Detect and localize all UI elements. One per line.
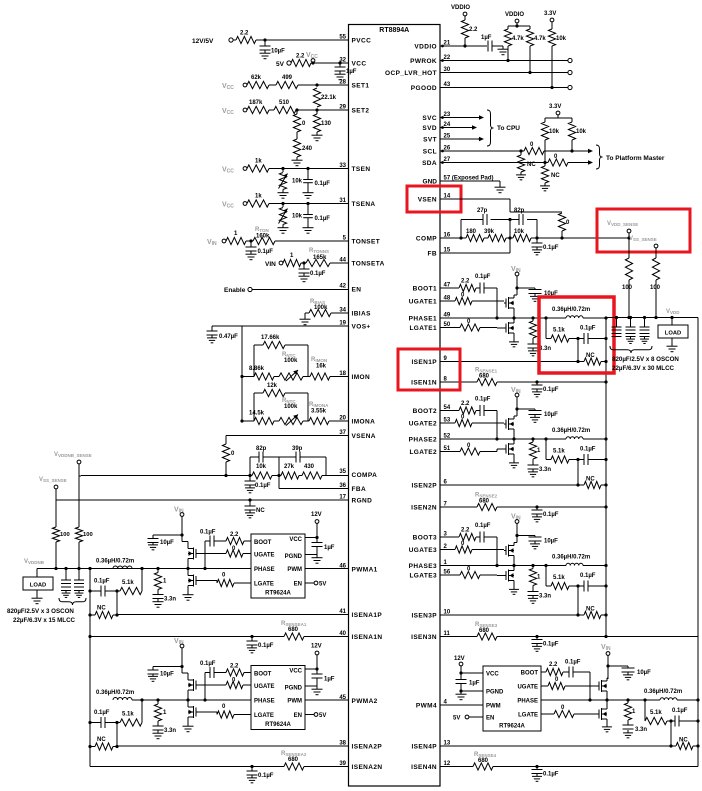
svg-text:VVDD_SENSE: VVDD_SENSE bbox=[607, 221, 638, 227]
ground (snubber 2) bbox=[528, 469, 538, 477]
svg-text:510: 510 bbox=[279, 100, 290, 106]
ground (bulk3 VDD) bbox=[640, 337, 649, 344]
svg-text:10k: 10k bbox=[256, 464, 267, 470]
pin 24 SVD bbox=[422, 122, 450, 132]
ground (snubber A1) bbox=[153, 599, 164, 608]
svg-text:PGOOD: PGOOD bbox=[411, 85, 437, 92]
wire VIN (A1) bbox=[180, 517, 183, 542]
resistor RSENSEA2 680 bbox=[281, 751, 307, 770]
wire TSENA bbox=[269, 202, 349, 205]
svg-text:RIMONA: RIMONA bbox=[309, 402, 329, 408]
svg-text:PHASE: PHASE bbox=[517, 699, 538, 705]
pin 7 ISEN2N bbox=[411, 502, 447, 512]
svg-text:PWM: PWM bbox=[486, 704, 501, 710]
svg-text:ISEN1N: ISEN1N bbox=[411, 380, 437, 387]
svg-text:39p: 39p bbox=[292, 446, 303, 452]
svg-text:22.1k: 22.1k bbox=[321, 95, 337, 101]
capacitor 0.1uF boot (3) bbox=[475, 523, 497, 543]
svg-text:1µF: 1µF bbox=[324, 677, 335, 683]
svg-text:VVDDNB_SENSE: VVDDNB_SENSE bbox=[54, 452, 92, 458]
svg-text:EN: EN bbox=[294, 713, 302, 719]
ground (ISEN4N cap) bbox=[532, 774, 542, 782]
resistor 8.86k bbox=[249, 366, 274, 380]
svg-text:0.1µF: 0.1µF bbox=[315, 216, 331, 222]
svg-text:0.1µF: 0.1µF bbox=[565, 660, 581, 666]
wire boot node (3) bbox=[495, 537, 498, 567]
wire branch left (3) bbox=[545, 566, 547, 587]
resistor 2.2 boot (A1) bbox=[214, 532, 251, 545]
svg-text:0.1µF: 0.1µF bbox=[94, 710, 110, 716]
ground (10uF 3) bbox=[530, 541, 540, 549]
resistor 4.7k a bbox=[504, 26, 524, 61]
resistor 14.5k bbox=[249, 411, 274, 425]
wire PGND (A1) bbox=[305, 554, 317, 556]
svg-text:5.1k: 5.1k bbox=[650, 710, 662, 716]
ground (ISEN3N cap) bbox=[532, 644, 542, 652]
pin 29 SET2 bbox=[339, 105, 369, 115]
svg-text:LGATE1: LGATE1 bbox=[409, 325, 437, 332]
resistor 0 ugate (2) bbox=[440, 415, 504, 427]
pin 21 VDDIO bbox=[414, 41, 450, 51]
svg-text:PWROK: PWROK bbox=[410, 58, 437, 65]
op-amp RT9624A driver (A1) bbox=[251, 534, 305, 598]
transistor Q lower (A1) bbox=[188, 569, 198, 592]
ground (bulk2 VDD) bbox=[626, 337, 635, 344]
node VCC (SET2) bbox=[222, 108, 247, 116]
capacitor 1uF (drv4) bbox=[456, 680, 480, 692]
inductor 0.36uH (1) bbox=[552, 307, 608, 320]
resistor 100 (VSS sense right) bbox=[650, 248, 661, 317]
pin 40 ISENA1N bbox=[339, 631, 382, 641]
svg-text:0.1µF: 0.1µF bbox=[543, 642, 559, 648]
svg-text:5.1k: 5.1k bbox=[122, 712, 134, 718]
wire branch left (1) bbox=[545, 318, 547, 339]
svg-text:VCC: VCC bbox=[289, 669, 302, 675]
svg-text:27k: 27k bbox=[284, 464, 295, 470]
svg-text:10k: 10k bbox=[576, 129, 587, 135]
node branch junction (3) bbox=[569, 584, 584, 615]
resistor 62k bbox=[247, 75, 269, 89]
ground (lowfet 3) bbox=[509, 587, 519, 595]
svg-text:RT9624A: RT9624A bbox=[265, 591, 291, 597]
wire SVD bbox=[440, 125, 477, 129]
node TONSET junction bbox=[249, 239, 252, 242]
svg-text:12V: 12V bbox=[311, 512, 322, 518]
wire VSS_SENSE bbox=[56, 489, 57, 527]
resistor 0 ugate (A2) bbox=[198, 678, 251, 689]
brace (VDD caps) bbox=[610, 346, 652, 353]
svg-text:SET1: SET1 bbox=[352, 83, 370, 90]
capacitor 1uF driver (A2) bbox=[312, 669, 335, 686]
resistor 0 ugate (1) bbox=[440, 293, 504, 305]
svg-text:PHASE1: PHASE1 bbox=[409, 316, 437, 323]
ground (COMP cap) bbox=[532, 247, 542, 255]
svg-text:10k: 10k bbox=[556, 36, 567, 42]
resistor 240 bbox=[293, 132, 312, 157]
wire VDD rail bbox=[606, 316, 698, 319]
svg-text:1µF: 1µF bbox=[324, 545, 335, 551]
transistor Q upper (A2) bbox=[182, 673, 198, 700]
node branch junction (2) bbox=[569, 458, 584, 485]
svg-text:PWM: PWM bbox=[287, 567, 302, 573]
node IMON tap bbox=[240, 375, 243, 378]
svg-text:BOOT: BOOT bbox=[254, 672, 272, 678]
resistor 1k (TSENA) bbox=[247, 194, 269, 208]
svg-text:BOOT: BOOT bbox=[521, 671, 539, 677]
pin 6 ISEN2P bbox=[411, 480, 447, 490]
capacitor 3.3n (4) bbox=[623, 720, 648, 733]
transistor Q upper (2) bbox=[504, 416, 517, 439]
resistor 0 (VSEN) bbox=[558, 213, 570, 240]
thermistor RNTC 100k (IMON) bbox=[274, 352, 303, 381]
wire SVC bbox=[440, 115, 484, 119]
svg-text:PWMA2: PWMA2 bbox=[352, 698, 378, 705]
svg-text:RT8894A: RT8894A bbox=[379, 27, 409, 34]
capacitor 1uF driver (A1) bbox=[312, 538, 335, 555]
node junction (A2) bbox=[88, 721, 118, 746]
svg-text:10µF: 10µF bbox=[160, 672, 174, 678]
svg-text:160k: 160k bbox=[256, 234, 270, 240]
node VSS_SENSE bbox=[39, 477, 67, 489]
svg-text:100: 100 bbox=[83, 532, 93, 538]
wire VCC driver (A2) bbox=[305, 655, 319, 671]
resistor 130 bbox=[313, 110, 331, 132]
node comp mid bbox=[508, 236, 511, 239]
capacitor 27p bbox=[477, 208, 488, 225]
svg-text:0.1µF: 0.1µF bbox=[200, 530, 216, 536]
svg-text:680: 680 bbox=[288, 757, 299, 763]
wire phase vertical (A2) bbox=[140, 698, 143, 722]
node junction (A1) bbox=[88, 589, 118, 614]
pin 48 UGATE1 bbox=[409, 296, 451, 306]
resistor 1 (TONSETA) bbox=[283, 253, 301, 267]
capacitor 0.1uF boot (A1) bbox=[200, 530, 216, 569]
capacitor bulk 2 (VDDNB) bbox=[74, 569, 84, 591]
node VIN (A2) bbox=[174, 638, 184, 648]
LOAD box (VDD) bbox=[658, 318, 688, 339]
pin 22 PWROK bbox=[410, 55, 451, 65]
resistor 510 bbox=[269, 100, 296, 114]
node 5V input bbox=[276, 61, 291, 68]
svg-text:ISENA2P: ISENA2P bbox=[352, 744, 383, 751]
wire PWM (A1) bbox=[305, 568, 349, 570]
pin 35 COMPA bbox=[339, 469, 377, 479]
svg-text:2.2: 2.2 bbox=[461, 528, 470, 534]
svg-text:8.86k: 8.86k bbox=[249, 366, 265, 372]
node IMONA tap bbox=[240, 419, 243, 422]
svg-text:82p: 82p bbox=[256, 446, 267, 452]
resistor 27k bbox=[281, 464, 299, 479]
svg-text:5.1k: 5.1k bbox=[553, 449, 565, 455]
svg-text:0.1µF: 0.1µF bbox=[255, 483, 271, 489]
pin 25 SVT bbox=[423, 134, 451, 144]
capacitor 0.1uF boot (2) bbox=[475, 397, 497, 417]
transistor Q lower (A2) bbox=[188, 700, 198, 723]
pin 13 ISEN4P bbox=[411, 741, 450, 751]
svg-text:FB: FB bbox=[428, 251, 437, 258]
ground (130) bbox=[312, 132, 323, 141]
svg-text:VCC: VCC bbox=[222, 167, 234, 175]
svg-text:VVDD: VVDD bbox=[666, 309, 680, 315]
svg-text:SVD: SVD bbox=[422, 125, 437, 132]
svg-text:PHASE3: PHASE3 bbox=[409, 563, 437, 570]
wire comp top rail bbox=[461, 218, 537, 253]
capacitor 3.3n (A2) bbox=[153, 721, 177, 734]
wire VSEN sense line bbox=[537, 236, 631, 239]
resistor 2.2 boot (1) bbox=[440, 279, 480, 292]
svg-text:LGATE: LGATE bbox=[254, 713, 274, 719]
wire ISEN3P bbox=[440, 613, 580, 616]
svg-text:0.1µF: 0.1µF bbox=[580, 573, 596, 579]
pin 1 PHASE3 bbox=[409, 560, 448, 570]
node PVCC junction bbox=[263, 38, 266, 41]
svg-text:UGATE: UGATE bbox=[254, 553, 275, 559]
resistor 0 lgate (2) bbox=[440, 443, 504, 455]
wire VDD right vertical bbox=[697, 318, 699, 767]
pin 23 SVC bbox=[422, 112, 450, 122]
svg-text:NC: NC bbox=[551, 173, 560, 179]
wire VIN (1) bbox=[515, 276, 518, 295]
svg-text:UGATE: UGATE bbox=[517, 685, 538, 691]
capacitor 0.1uF (A1) bbox=[90, 579, 120, 597]
pin 37 VSENA bbox=[339, 430, 376, 440]
svg-text:820µF/2.5V x 8 OSCON: 820µF/2.5V x 8 OSCON bbox=[612, 356, 679, 363]
svg-text:3.3V: 3.3V bbox=[544, 11, 556, 17]
svg-text:SVT: SVT bbox=[423, 137, 437, 144]
resistor 187k bbox=[247, 100, 269, 114]
resistor NC (2) bbox=[578, 477, 608, 489]
svg-text:5.1k: 5.1k bbox=[553, 575, 565, 581]
ground (NC SCL) bbox=[516, 172, 526, 180]
node TONSETA junction bbox=[302, 261, 305, 264]
capacitor NC (RGND) bbox=[245, 500, 266, 514]
capacitor 39p bbox=[292, 446, 303, 463]
ground (VCC cap) bbox=[335, 71, 346, 80]
pin 38 ISENA2P bbox=[339, 741, 382, 751]
svg-text:SDA: SDA bbox=[422, 160, 437, 167]
wire ISENA2P bbox=[117, 745, 349, 747]
capacitor bulk 1 (VDD) bbox=[612, 318, 622, 337]
svg-text:5.1k: 5.1k bbox=[553, 328, 565, 334]
svg-text:0.1µF: 0.1µF bbox=[580, 447, 596, 453]
svg-text:Enable: Enable bbox=[224, 287, 246, 294]
svg-text:0.1µF: 0.1µF bbox=[200, 661, 216, 667]
resistor 1 snubber (A2) bbox=[154, 698, 167, 721]
pin 4 PWM4 bbox=[416, 700, 448, 710]
svg-text:VDDIO: VDDIO bbox=[414, 44, 437, 51]
wire VCC driver (A1) bbox=[305, 524, 319, 540]
capacitor bulk 3 (VDD) bbox=[640, 318, 650, 337]
svg-text:VCC: VCC bbox=[222, 83, 234, 91]
resistor 2.2 (PVCC) bbox=[236, 31, 256, 44]
resistor NC (SCL) bbox=[517, 151, 536, 172]
svg-text:VSEN: VSEN bbox=[418, 197, 437, 204]
resistor 180 bbox=[466, 229, 484, 242]
LOAD box (VDDNB) bbox=[23, 569, 53, 591]
pin 43 PGOOD bbox=[411, 82, 451, 92]
svg-text:PHASE: PHASE bbox=[254, 699, 275, 705]
svg-text:680: 680 bbox=[288, 627, 299, 633]
resistor 1 snubber (3) bbox=[529, 566, 541, 586]
resistor 1 snubber (2) bbox=[529, 439, 541, 459]
wire branch left (2) bbox=[545, 439, 547, 460]
svg-text:100k: 100k bbox=[284, 358, 298, 364]
capacitor 0.1uF (ISENA1N) bbox=[247, 637, 274, 650]
ground (VDDIO cap) bbox=[498, 46, 509, 55]
svg-text:3.3V: 3.3V bbox=[549, 104, 561, 110]
label VDD caps bbox=[612, 356, 679, 372]
resistor 1 snubber (1) bbox=[529, 318, 541, 338]
resistor RSENSE1 680 bbox=[475, 368, 498, 386]
ground (LOAD VDDNB) bbox=[32, 590, 43, 604]
svg-text:165k: 165k bbox=[313, 255, 327, 261]
svg-text:PGND: PGND bbox=[486, 690, 504, 696]
svg-text:PHASE2: PHASE2 bbox=[409, 437, 437, 444]
ground (NC SDA) bbox=[540, 183, 550, 191]
ground (thermistor TSEN) bbox=[278, 190, 289, 199]
resistor 12k bbox=[263, 383, 285, 397]
svg-text:2.2: 2.2 bbox=[296, 54, 305, 60]
svg-text:VIN: VIN bbox=[207, 239, 217, 247]
capacitor 0.1uF out (1) bbox=[580, 326, 608, 345]
svg-text:10k: 10k bbox=[514, 229, 525, 235]
ground (cap TSENA) bbox=[303, 225, 314, 234]
wire VOS+ bbox=[242, 325, 349, 327]
resistor 0 lgate (3) bbox=[440, 567, 504, 579]
label VDDNB caps bbox=[7, 608, 76, 624]
svg-text:TSEN: TSEN bbox=[352, 166, 371, 173]
wire ISENA1N bbox=[88, 635, 348, 638]
pin 51 LGATE2 bbox=[409, 446, 450, 456]
capacitor 82p bbox=[514, 208, 525, 225]
ground (snubber 1) bbox=[528, 348, 538, 356]
svg-text:0.1µF: 0.1µF bbox=[475, 523, 491, 529]
wire VSEN bbox=[440, 199, 562, 212]
svg-text:ISENA2N: ISENA2N bbox=[352, 764, 383, 771]
transistor Q upper (4) bbox=[597, 678, 608, 700]
ground (exposed pad) bbox=[495, 181, 506, 193]
capacitor 0.1uF out (2) bbox=[580, 447, 608, 466]
svg-text:3.3n: 3.3n bbox=[539, 594, 551, 600]
resistor 1 (TONSET) bbox=[226, 231, 246, 245]
wire EN bbox=[252, 289, 349, 291]
pin 5 TONSET bbox=[343, 236, 381, 246]
node VIN (A1) bbox=[174, 507, 184, 517]
svg-text:ISEN4P: ISEN4P bbox=[411, 744, 437, 751]
svg-text:3.3n: 3.3n bbox=[635, 727, 647, 733]
node comp right bbox=[535, 236, 538, 239]
svg-text:0.36µH/0.72m: 0.36µH/0.72m bbox=[552, 555, 590, 561]
capacitor bulk 1 (VDDNB) bbox=[61, 569, 71, 591]
resistor 0 lgate (A2) bbox=[198, 704, 251, 718]
brace To CPU bbox=[487, 110, 520, 146]
resistor 0 lgate (1) bbox=[440, 319, 504, 331]
transistor Q upper (A1) bbox=[182, 542, 198, 569]
node VIN (2) bbox=[511, 387, 521, 397]
wire VDD output vertical bbox=[605, 318, 607, 637]
svg-text:EN: EN bbox=[486, 716, 494, 722]
resistor 10k (SCL) bbox=[541, 118, 559, 163]
ground (TONSET cap) bbox=[246, 251, 257, 260]
capacitor 0.1uF boot (A2) bbox=[200, 661, 216, 700]
wire ISEN1N bbox=[440, 380, 608, 383]
svg-text:PVCC: PVCC bbox=[352, 38, 372, 45]
pin 42 EN bbox=[339, 284, 361, 294]
svg-text:COMP: COMP bbox=[416, 236, 437, 243]
pin 41 ISENA1P bbox=[339, 609, 382, 619]
pin 17 RGND bbox=[339, 495, 372, 505]
wire COMPA comp network bbox=[250, 457, 326, 476]
node VSS_SENSE (right) bbox=[629, 236, 658, 248]
resistor RSENSE4 680 bbox=[473, 752, 497, 770]
capacitor 0.47uF bbox=[207, 326, 243, 340]
ground (lowfet 1) bbox=[509, 339, 519, 347]
svg-text:2.2: 2.2 bbox=[469, 27, 478, 33]
svg-text:0.36µH/0.72m: 0.36µH/0.72m bbox=[96, 690, 134, 696]
pin 32 VCC bbox=[339, 58, 366, 68]
node VCC (TSEN) bbox=[222, 167, 247, 175]
resistor 0 lgate (A1) bbox=[198, 573, 251, 587]
resistor 22.1k bbox=[313, 88, 336, 107]
resistor 0 ugate (A1) bbox=[198, 546, 251, 557]
svg-text:PGND: PGND bbox=[285, 554, 303, 560]
pin 20 IMONA bbox=[339, 416, 375, 426]
svg-text:RIMON: RIMON bbox=[311, 357, 327, 363]
svg-text:0.1µF: 0.1µF bbox=[543, 512, 559, 518]
thermistor RNTC 100k (IMONA) bbox=[274, 398, 303, 426]
capacitor 0.1uF (COMP) bbox=[532, 238, 559, 251]
pin 16 COMP bbox=[416, 233, 451, 243]
svg-text:VSENA: VSENA bbox=[352, 433, 376, 440]
pin 45 PWMA2 bbox=[339, 695, 377, 705]
wire VDDIO pin bbox=[440, 44, 487, 47]
svg-text:42: 42 bbox=[339, 284, 346, 290]
svg-text:17.66k: 17.66k bbox=[261, 335, 280, 341]
ground (PVCC cap) bbox=[260, 50, 271, 59]
svg-text:VDDIO: VDDIO bbox=[505, 12, 524, 18]
wire PGOOD bbox=[440, 85, 572, 89]
capacitor 0.1uF out (3) bbox=[580, 573, 608, 592]
svg-text:0.1µF: 0.1µF bbox=[543, 772, 559, 778]
svg-text:5.1k: 5.1k bbox=[122, 580, 134, 586]
svg-text:ISEN2P: ISEN2P bbox=[411, 483, 437, 490]
node VVDD bbox=[666, 309, 680, 315]
svg-text:0.36µH/0.72m: 0.36µH/0.72m bbox=[96, 559, 134, 565]
ground (ISENA2N cap) bbox=[247, 775, 257, 783]
resistor 100 (VDDNB sense) bbox=[75, 476, 92, 569]
pin 9 ISEN1P bbox=[411, 356, 447, 366]
ground (10uF 2) bbox=[530, 415, 540, 423]
wire VSENA bbox=[226, 435, 349, 437]
capacitor 0.1uF (TSEN) bbox=[303, 169, 330, 190]
resistor RBIAS 100k bbox=[305, 299, 349, 317]
node VIN (3) bbox=[511, 514, 521, 524]
wire VIN (3) bbox=[515, 524, 518, 543]
ground (snubber 3) bbox=[528, 596, 538, 604]
svg-text:0.1µF: 0.1µF bbox=[475, 397, 491, 403]
svg-text:5V: 5V bbox=[319, 713, 326, 719]
svg-text:COMPA: COMPA bbox=[352, 472, 378, 479]
ground (240) bbox=[292, 157, 303, 166]
ground (RBIAS) bbox=[300, 316, 311, 325]
resistor 5.1k (A2) bbox=[120, 712, 142, 727]
capacitor 0.1uF boot (1) bbox=[475, 274, 497, 294]
svg-text:RT9624A: RT9624A bbox=[265, 722, 291, 728]
svg-text:LGATE3: LGATE3 bbox=[409, 573, 437, 580]
svg-text:0.1µF: 0.1µF bbox=[310, 271, 326, 277]
node VCC (SET1) bbox=[222, 83, 247, 91]
node phase (1) bbox=[512, 316, 534, 319]
